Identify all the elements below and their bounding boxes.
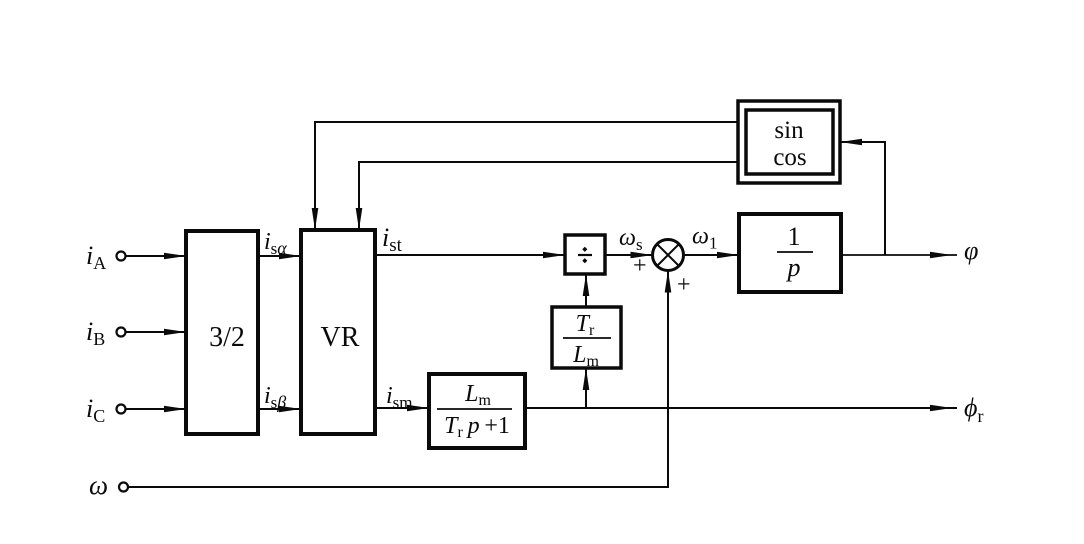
arrow into Tr/Lm bottom [583,368,590,390]
arrow upper into VR top [312,208,319,230]
arrow phi_r output [930,405,952,412]
wire iC to 3/2 [126,408,187,410]
svg-text:1: 1 [788,222,801,251]
svg-text:VR: VR [321,322,360,353]
wire omega_s divider to summer [605,254,653,256]
label Tr/Lm fraction [572,311,599,370]
wire omega to summer [128,271,668,488]
wire i_s_alpha 3/2 to VR [258,255,301,257]
arrow omega_1 into 1/p [717,252,739,259]
arrow omega into summer bottom [665,271,672,293]
block VR [301,230,375,434]
label 1/p fraction [786,222,801,282]
svg-text:3/2: 3/2 [209,322,245,353]
arrow i_s_alpha into VR [279,253,301,260]
arrow feedback into sin-cos [840,139,862,146]
wire i_sm VR to Lm block [375,407,429,409]
wire i_s_beta 3/2 to VR [258,408,301,410]
svg-text:Tr p +1: Tr p +1 [444,413,510,441]
node iA input terminal [117,252,126,261]
wire Tr/Lm up to divider [585,274,587,307]
arrow lower into VR top [356,208,363,230]
sin-cos block inner [746,110,833,174]
node omega input terminal [119,483,128,492]
block 1/p [739,214,841,292]
node iB input terminal [117,328,126,337]
summing junction cross [658,245,679,266]
sin-cos block outer [738,101,840,183]
wire sin-cos lower output to VR [359,162,738,230]
summing junction [653,240,684,271]
wire iB to 3/2 [126,331,187,333]
svg-text:cos: cos [773,144,806,171]
label divide sign [578,247,592,263]
divider block [565,235,605,274]
wire phi_r output [525,407,957,409]
svg-text:p: p [786,253,801,282]
svg-text:sin: sin [774,117,804,144]
arrow i_s_beta into VR [279,406,301,413]
svg-text:+: + [633,253,647,279]
node iC input terminal [117,405,126,414]
wire feedback from phi line up to sin-cos [840,142,885,255]
wire sin-cos upper output to VR [315,122,738,230]
arrow iB into 3/2 [164,329,186,336]
svg-text:φ: φ [964,236,978,265]
svg-text:+: + [677,272,691,298]
arrow i_st into divider [543,252,565,259]
wire branch from ism line up to Tr/Lm [585,368,587,408]
arrow i_sm into Lm block [407,405,429,412]
block Lm/(Tr p+1) [429,374,525,448]
wire i_st VR to divider [375,254,565,256]
arrow omega_s into summer [631,252,653,259]
svg-text:ω: ω [89,470,108,500]
arrow phi output [930,252,952,259]
wire phi output [841,254,957,256]
arrow iA into 3/2 [164,253,186,260]
wire omega_1 summer to 1/p [684,254,740,256]
arrow iC into 3/2 [164,406,186,413]
arrow into divider bottom [583,274,590,296]
label Lm/(Tr p+1) fraction [444,381,510,441]
block Tr/Lm [552,307,621,368]
block 3/2 [186,231,258,434]
wire iA to 3/2 [126,255,187,257]
